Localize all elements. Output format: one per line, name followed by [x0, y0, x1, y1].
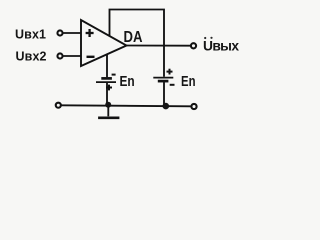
junction dot left battery on rail	[105, 102, 111, 108]
battery En right: long positive plate	[153, 77, 173, 79]
input terminal Uвх2	[57, 53, 62, 58]
svg-text:En: En	[120, 74, 135, 90]
svg-text:Uвх1: Uвх1	[15, 27, 46, 41]
battery En right: short negative plate	[158, 80, 169, 83]
svg-text:En: En	[181, 74, 196, 90]
battery En left: plus polarity mark	[106, 85, 112, 91]
ground bar	[98, 116, 119, 119]
op-amp DA triangle	[81, 20, 127, 66]
bottom right terminal circle	[191, 104, 196, 109]
battery En left: minus polarity mark	[112, 74, 116, 76]
battery En left: short negative plate	[101, 77, 112, 80]
scan speck left above Uвых	[204, 37, 206, 39]
junction dot right battery on rail	[163, 103, 170, 110]
output terminal Uвых	[191, 43, 196, 48]
inverting input minus marker	[87, 56, 95, 58]
ground stub	[107, 105, 109, 116]
ground terminal circle bottom left	[56, 103, 61, 108]
battery En right: minus polarity mark	[170, 84, 175, 86]
svg-text:Uвх2: Uвх2	[16, 49, 47, 63]
wire inverting input	[63, 55, 81, 57]
svg-text:DA: DA	[124, 29, 143, 46]
wire bottom common rail	[62, 105, 191, 106]
wire non-inverting input	[63, 32, 81, 34]
wire right battery to rail	[163, 82, 165, 106]
input terminal Uвх1	[57, 30, 62, 35]
wire output	[127, 45, 191, 47]
non-inverting input plus marker	[86, 29, 94, 37]
battery En right: plus polarity mark	[167, 69, 173, 75]
wire V+ supply loop	[110, 10, 165, 77]
wire left battery to rail	[106, 83, 108, 105]
battery En left: long positive plate	[96, 81, 116, 83]
scan speck right above Uвых	[210, 37, 212, 39]
svg-text:Uвых: Uвых	[203, 38, 239, 53]
wire op-amp V- to left battery	[106, 55, 108, 78]
